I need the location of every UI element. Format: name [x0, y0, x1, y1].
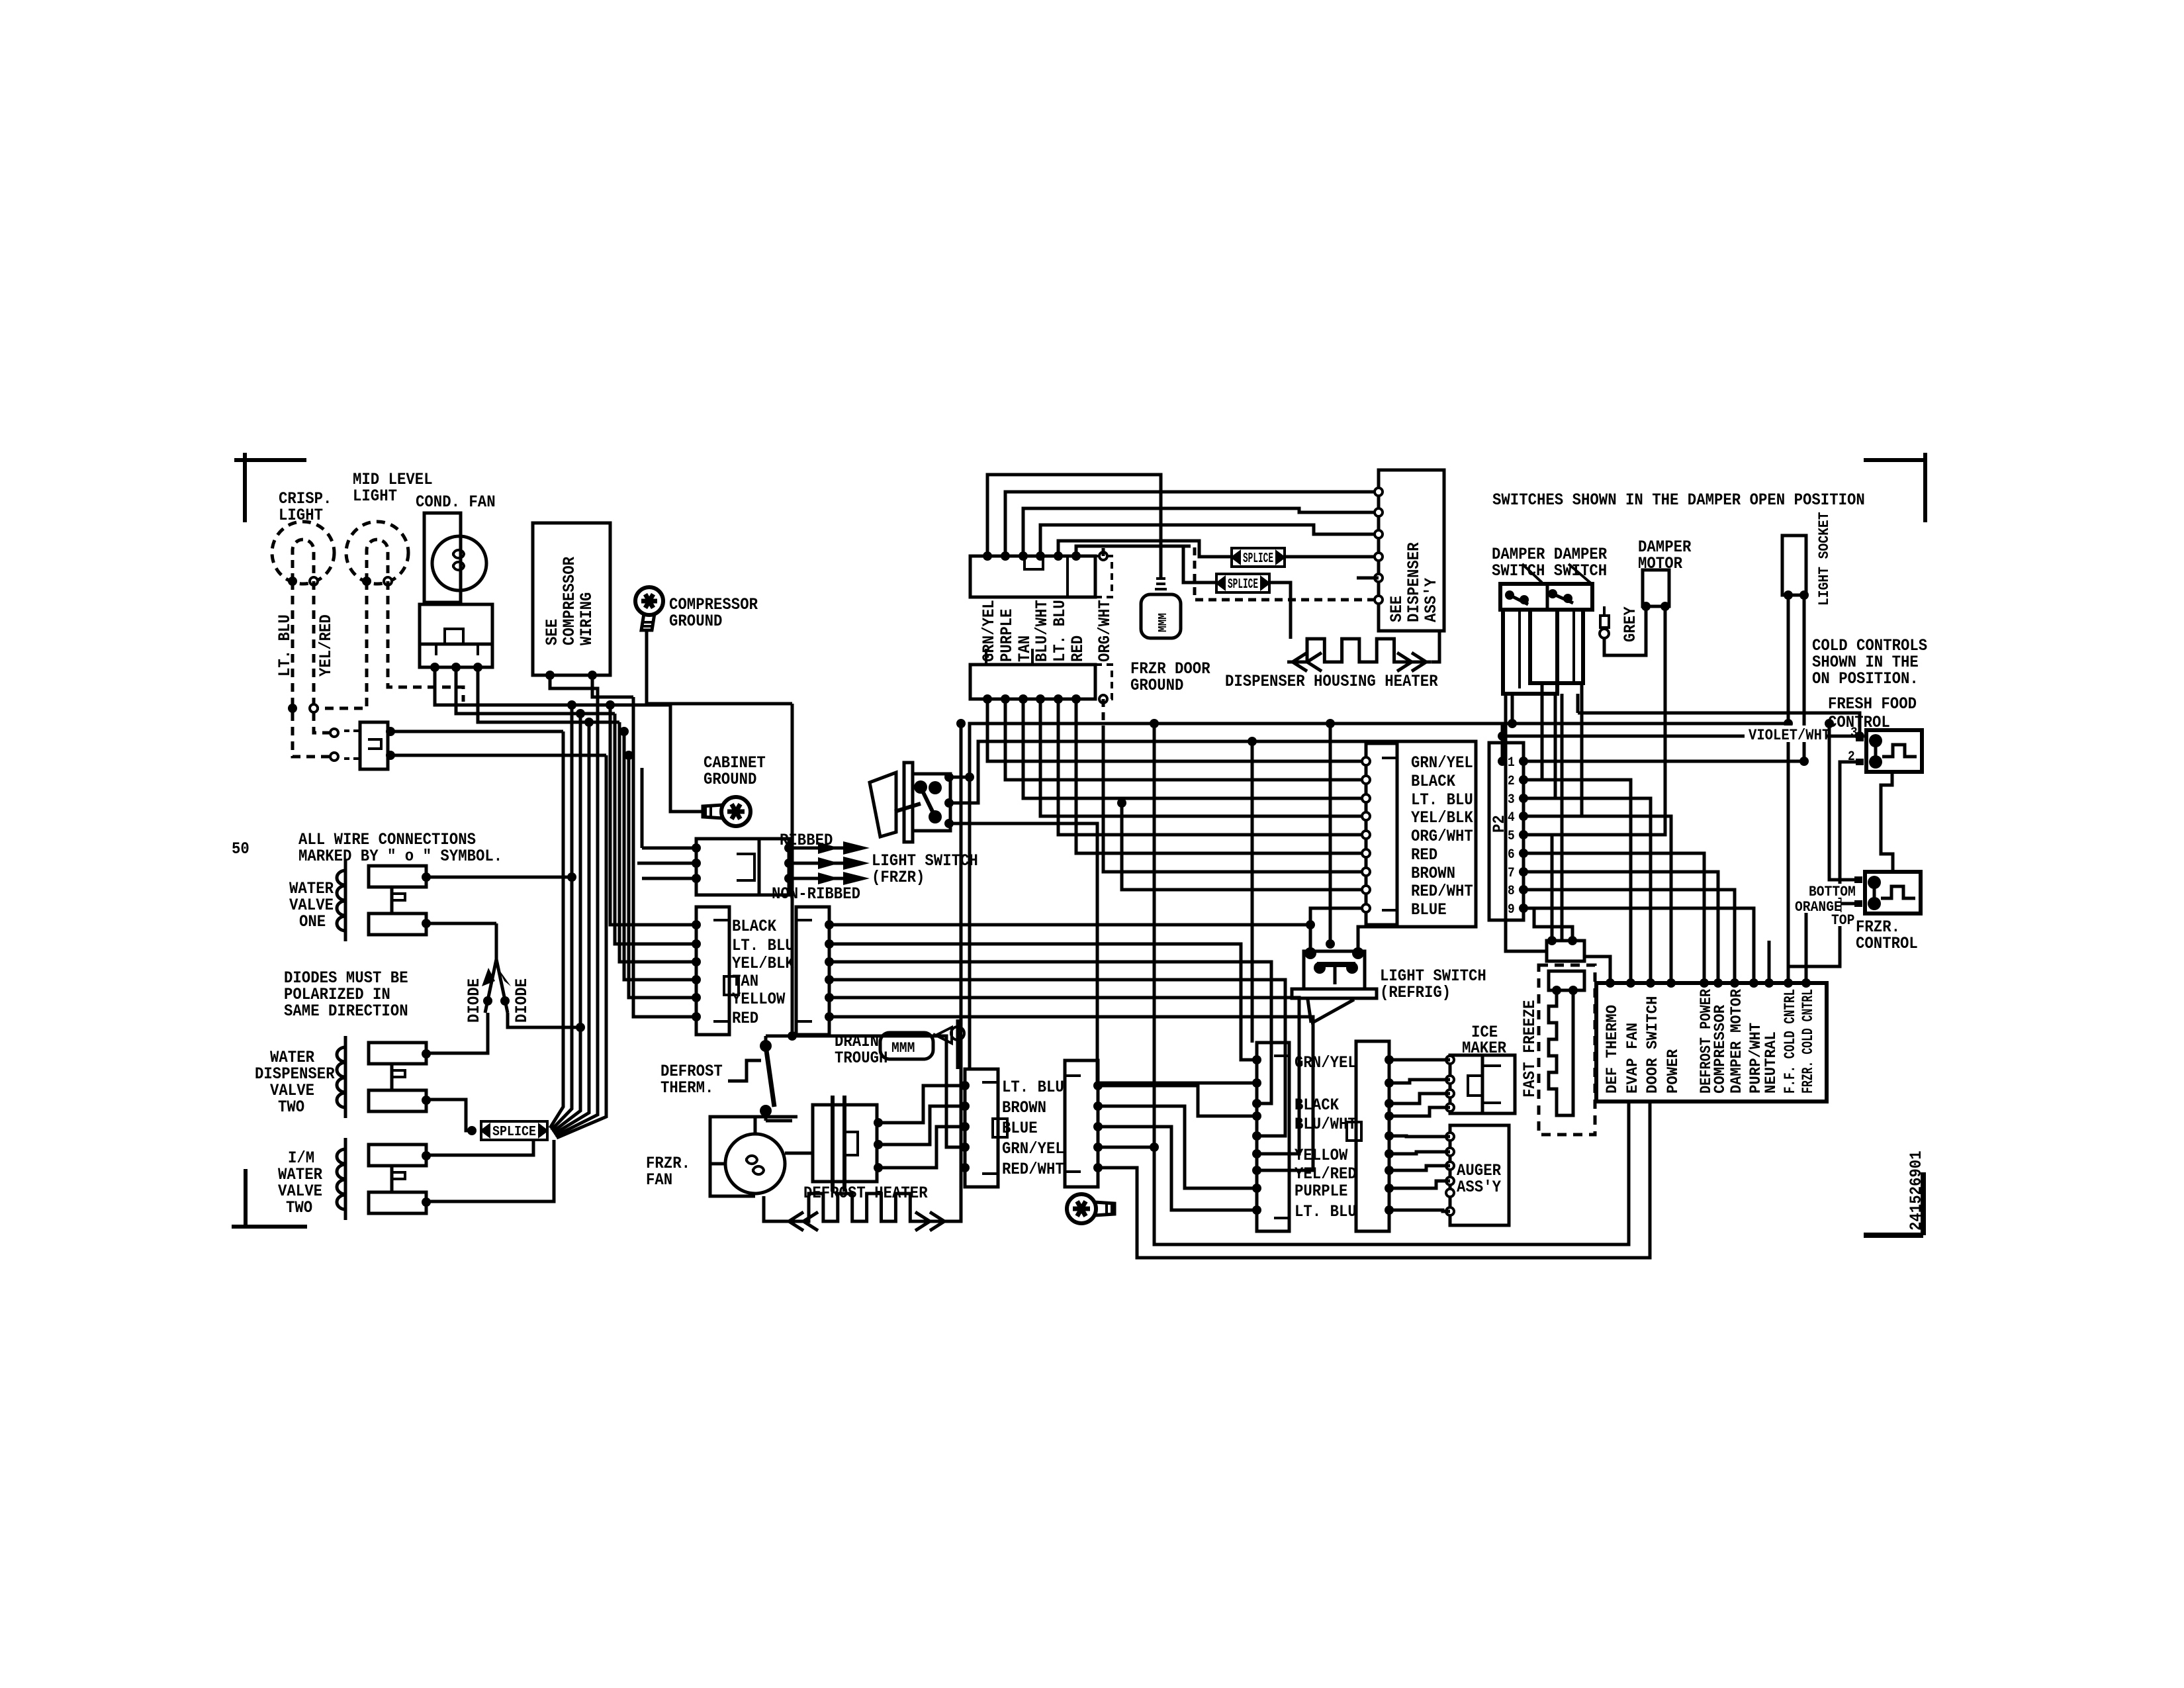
svg-text:LT. BLU: LT. BLU	[732, 936, 794, 955]
wire p2-2 grid	[1524, 780, 1631, 983]
svg-text:BOTTOM: BOTTOM	[1809, 884, 1856, 900]
wire damper sw 3	[1524, 694, 1555, 798]
damper switch assembly	[1500, 584, 1592, 610]
svg-text:9: 9	[1508, 902, 1515, 917]
svg-text:GREY: GREY	[1621, 606, 1640, 642]
svg-text:POWER: POWER	[1664, 1049, 1682, 1094]
wire heater to J2 r2	[878, 1106, 965, 1145]
svg-text:3: 3	[1508, 792, 1515, 808]
wire long vertical e	[1329, 724, 1332, 944]
connector P2	[1489, 743, 1524, 920]
svg-text:TAN: TAN	[732, 972, 758, 991]
wire p1-6 to splice2	[1076, 546, 1215, 583]
svg-text:THERM.: THERM.	[660, 1078, 713, 1098]
wire J2r row4	[1098, 1102, 1629, 1244]
svg-text:ASS'Y: ASS'Y	[1457, 1178, 1501, 1197]
connector grey	[1603, 606, 1606, 616]
wire valve1 bottom to diode	[426, 922, 496, 925]
bundle A v5	[555, 697, 598, 1136]
wire p2-5 to fastfreeze	[1524, 835, 1552, 941]
lamp mid level light	[346, 522, 408, 584]
wire fan to heater1	[785, 1152, 813, 1155]
bundle B v2	[615, 714, 696, 944]
thermostat defrost	[728, 1060, 761, 1081]
wire j4 im1	[1389, 1058, 1450, 1062]
bundle B v4	[624, 731, 696, 980]
svg-text:SPLICE: SPLICE	[1243, 551, 1273, 567]
svg-text:5: 5	[1508, 829, 1515, 844]
wire splice2 to heater	[1269, 583, 1291, 639]
svg-text:YEL/RED: YEL/RED	[1295, 1164, 1357, 1184]
wire J2r row3	[1098, 1127, 1257, 1210]
wire ff2 to strip	[1788, 762, 1856, 983]
wires ribbed arrows	[793, 847, 852, 850]
wire switch to bundle2	[390, 754, 606, 757]
svg-text:BLACK: BLACK	[1295, 1096, 1339, 1115]
wire refrig-sw right up	[1358, 927, 1476, 951]
wire damper sw left leg	[1506, 694, 1547, 951]
wire yel/red dashed	[314, 581, 333, 733]
wire long vertical b	[791, 704, 794, 1036]
diode pair	[495, 923, 498, 959]
lamp crisper light	[272, 522, 334, 584]
wire damper sw 1	[1511, 694, 1514, 724]
wire diode right out	[508, 1013, 580, 1027]
wire mesh r7 dashed	[1102, 699, 1105, 728]
svg-text:LT. BLU: LT. BLU	[1411, 790, 1473, 810]
frzr fan frame	[710, 1117, 797, 1196]
wire p1-4 to dispenser	[1040, 525, 1379, 556]
wire long vertical c	[1153, 724, 1156, 1147]
connector P1 top	[970, 556, 1095, 597]
bundle B v1	[610, 705, 696, 925]
wire J1r row2	[829, 944, 1257, 1060]
wire p1-3 to dispenser	[1023, 508, 1379, 556]
svg-text:YEL/BLK: YEL/BLK	[732, 954, 794, 973]
switch light refrig	[1304, 951, 1365, 989]
wire light-switch-frzr top	[949, 724, 1502, 777]
wire therm bottom	[766, 1119, 792, 1123]
drain trough heater	[880, 1033, 933, 1059]
corner mark top-right	[1864, 458, 1925, 462]
wire long vertical d	[1251, 741, 1254, 1043]
svg-text:FAST FREEZE: FAST FREEZE	[1520, 1000, 1539, 1098]
corner mark top-left	[234, 458, 306, 462]
connector J3	[1366, 743, 1397, 925]
wire heater to J2 r1	[878, 1086, 965, 1123]
connector J2 right	[1065, 1060, 1098, 1187]
wire long vertical a	[960, 724, 963, 1221]
wire ff3 feed	[1578, 713, 1860, 736]
box SEE COMPRESSOR WIRING	[533, 523, 610, 675]
wire p2-9b to fastfreeze	[1524, 908, 1572, 941]
svg-text:PURPLE: PURPLE	[997, 609, 1017, 662]
svg-text:DOOR SWITCH: DOOR SWITCH	[1644, 996, 1661, 1094]
wire frzr-ctl bottom	[1829, 724, 1854, 880]
svg-text:50: 50	[232, 839, 250, 859]
svg-text:DISPENSER: DISPENSER	[1404, 542, 1424, 622]
svg-text:GRN/YEL: GRN/YEL	[979, 600, 999, 662]
svg-text:1: 1	[1508, 755, 1515, 771]
wire frzr door ground feed	[987, 475, 1161, 577]
wire splice1 right	[1285, 555, 1379, 559]
wire refrig-sw mid	[1122, 803, 1366, 890]
svg-text:NEUTRAL: NEUTRAL	[1762, 1031, 1780, 1094]
auger assembly	[1450, 1125, 1509, 1225]
wire relay to def thermo	[1584, 957, 1610, 983]
wire p2-9 grid	[1524, 908, 1754, 983]
connector J1 right	[796, 907, 829, 1035]
svg-text:COND. FAN: COND. FAN	[416, 492, 496, 512]
svg-text:LT. BLU: LT. BLU	[1295, 1202, 1357, 1221]
svg-text:GROUND: GROUND	[1130, 676, 1183, 695]
svg-text:(REFRIG): (REFRIG)	[1380, 983, 1451, 1002]
wire j4 au5	[1389, 1210, 1450, 1211]
svg-text:ASS'Y: ASS'Y	[1422, 578, 1441, 622]
svg-text:TWO: TWO	[286, 1198, 312, 1217]
svg-text:FAN: FAN	[646, 1170, 672, 1190]
svg-text:DIODE: DIODE	[465, 978, 484, 1023]
svg-text:LIGHT: LIGHT	[279, 506, 323, 525]
wire mid-light right dashed	[388, 581, 463, 702]
svg-text:FRESH FOOD: FRESH FOOD	[1828, 694, 1917, 714]
svg-text:BLACK: BLACK	[1411, 772, 1455, 791]
motor frzr fan	[725, 1134, 785, 1194]
svg-text:SAME DIRECTION: SAME DIRECTION	[284, 1002, 408, 1021]
wire damper sw 4	[1524, 683, 1582, 816]
wire fan to heater2	[710, 1162, 725, 1166]
damper motor	[1643, 570, 1669, 606]
leader lines damper switch	[1522, 564, 1542, 583]
wire therm to J2	[792, 1036, 965, 1147]
wire p2-3 grid	[1524, 798, 1651, 983]
wire p2-4 grid	[1524, 816, 1671, 983]
wire damper sw 5	[1561, 694, 1564, 941]
splice lower	[1216, 574, 1269, 592]
splice left-bottom	[481, 1121, 547, 1140]
svg-text:SPLICE: SPLICE	[1228, 577, 1258, 592]
wire J1r row1	[829, 908, 1366, 925]
fast freeze resistor	[1549, 971, 1584, 990]
wire light socket left	[1787, 595, 1790, 983]
bundle B v6	[633, 697, 696, 1017]
wire j4 im3	[1389, 1094, 1450, 1103]
svg-text:SEE: SEE	[543, 619, 562, 645]
svg-text:LIGHT: LIGHT	[353, 487, 397, 506]
wire socket-h	[970, 722, 1788, 726]
fast freeze relay box	[1547, 941, 1584, 961]
wire j4 au3	[1389, 1166, 1450, 1170]
splice upper	[1232, 548, 1285, 567]
svg-text:EVAP FAN: EVAP FAN	[1624, 1023, 1641, 1094]
capacitor defrost heater body	[813, 1105, 877, 1182]
wires into door connector	[642, 847, 696, 850]
svg-text:4: 4	[1508, 810, 1515, 825]
wire heater right	[950, 1168, 961, 1221]
svg-text:WIRING: WIRING	[577, 592, 596, 645]
svg-text:RED: RED	[1411, 845, 1437, 865]
svg-text:BLUE: BLUE	[1411, 900, 1447, 919]
wire refrig-sw left up	[1309, 925, 1312, 951]
switch light frzr	[870, 773, 896, 837]
svg-text:BROWN: BROWN	[1411, 864, 1455, 883]
wire damper motor down	[1524, 606, 1665, 835]
wire cond fan t2	[456, 667, 615, 714]
svg-text:ORG/WHT: ORG/WHT	[1095, 600, 1115, 662]
wire light-switch-frzr bot	[949, 823, 1257, 1083]
connector J4 left	[1257, 1043, 1289, 1231]
svg-text:LT. BLU: LT. BLU	[275, 614, 295, 677]
wire im valve top	[426, 1140, 533, 1155]
svg-text:COMPRESSOR: COMPRESSOR	[560, 557, 579, 645]
wire j4 au1	[1389, 1136, 1450, 1137]
wire p2-8 grid	[1524, 890, 1735, 983]
svg-text:MMM: MMM	[1157, 613, 1170, 632]
wire j4 im2	[1389, 1080, 1450, 1083]
connector J4 right	[1356, 1041, 1389, 1231]
motor cond fan	[424, 513, 461, 602]
svg-text:SPLICE: SPLICE	[492, 1125, 536, 1140]
bundle A v1	[550, 731, 563, 1128]
svg-text:SWITCH SWITCH: SWITCH SWITCH	[1492, 561, 1607, 581]
svg-text:ONE: ONE	[299, 912, 326, 931]
svg-text:NON-RIBBED: NON-RIBBED	[772, 884, 860, 904]
heater defrost element	[784, 1194, 950, 1221]
connector P1 bottom	[970, 665, 1095, 699]
wire p2-1 right	[1524, 760, 1804, 763]
svg-text:DEF THERMO: DEF THERMO	[1604, 1005, 1621, 1094]
wire J1r row5	[829, 998, 1299, 1154]
wire compressor t1	[550, 675, 633, 697]
svg-text:BROWN: BROWN	[1002, 1098, 1046, 1117]
solenoid water valve one	[344, 859, 347, 941]
switch interior-light	[360, 722, 388, 769]
svg-text:GRN/YEL: GRN/YEL	[1411, 753, 1473, 773]
wire cond fan t1	[435, 667, 670, 705]
svg-text:BLUE: BLUE	[1002, 1119, 1038, 1138]
wire p1-5 to splice1	[1058, 541, 1230, 557]
svg-text:RED/WHT: RED/WHT	[1002, 1160, 1064, 1179]
wire compressor ground down	[647, 630, 792, 704]
wire violet/wht	[1502, 735, 1856, 738]
control fresh food	[1866, 730, 1922, 772]
label VIOLET/WHT	[1745, 726, 1825, 742]
svg-text:TOP: TOP	[1831, 912, 1854, 929]
wire im valve bottom	[426, 1140, 554, 1201]
svg-text:TWO: TWO	[278, 1098, 304, 1117]
svg-text:YEL/BLK: YEL/BLK	[1411, 808, 1473, 827]
wire J2r row5	[1098, 1102, 1650, 1258]
svg-text:FRZR. COLD CNTRL: FRZR. COLD CNTRL	[1799, 989, 1817, 1094]
wire J1r row3	[829, 962, 1271, 1103]
wire valve2 bottom to splice	[426, 1100, 472, 1131]
wire mesh r2	[1005, 699, 1366, 780]
svg-text:GROUND: GROUND	[669, 612, 722, 631]
svg-text:COMPRESSOR: COMPRESSOR	[1711, 1005, 1729, 1094]
bundle A v3	[553, 714, 580, 1132]
wire light socket right	[1803, 595, 1806, 761]
wire heater to J2 r3	[878, 1127, 965, 1168]
svg-text:PURPLE: PURPLE	[1295, 1182, 1347, 1201]
terminal strip box	[1596, 983, 1827, 1102]
wire j4 au4	[1389, 1181, 1450, 1188]
wire j4 au2	[1389, 1152, 1450, 1154]
wire J2r row1	[1098, 1086, 1257, 1116]
wire j4 im4	[1389, 1107, 1450, 1116]
svg-text:2: 2	[1508, 774, 1515, 789]
wire valve1 top	[426, 876, 572, 879]
ground frzr door	[1156, 577, 1165, 580]
svg-text:241526901: 241526901	[1907, 1150, 1926, 1231]
svg-text:DISPENSER HOUSING HEATER: DISPENSER HOUSING HEATER	[1225, 672, 1438, 691]
bundle B v3	[619, 722, 696, 962]
wire lt.blu dashed	[293, 581, 333, 757]
wire mesh r4	[1040, 699, 1366, 816]
wire p2-6 grid	[1524, 853, 1704, 983]
wire diode left down	[426, 1013, 488, 1053]
heater dispenser housing	[1287, 639, 1432, 662]
svg-text:6: 6	[1508, 847, 1515, 863]
svg-text:ORG/WHT: ORG/WHT	[1411, 827, 1473, 846]
svg-text:GRN/YEL: GRN/YEL	[1295, 1053, 1357, 1072]
wire light-switch-frzr mid	[949, 741, 1476, 927]
svg-text:YEL/RED: YEL/RED	[316, 614, 336, 677]
label BOTTOM ORANGE TOP	[1805, 884, 1854, 898]
svg-text:GRN/YEL: GRN/YEL	[1002, 1139, 1064, 1158]
wire J1r row6	[829, 1017, 1313, 1170]
wire cond fan t3	[478, 667, 619, 722]
svg-text:VIOLET/WHT: VIOLET/WHT	[1749, 727, 1830, 744]
svg-text:LIGHT SOCKET: LIGHT SOCKET	[1816, 512, 1833, 606]
svg-text:MARKED BY " o " SYMBOL.: MARKED BY " o " SYMBOL.	[298, 847, 502, 866]
connector J2 left	[965, 1069, 998, 1187]
wire mesh r6	[1076, 699, 1366, 853]
bundle A v6	[557, 755, 606, 1138]
wire org/wht dashed	[1102, 546, 1105, 556]
ground evaporator	[1067, 1194, 1115, 1223]
wire mesh r5	[1058, 699, 1366, 835]
svg-text:(FRZR): (FRZR)	[872, 868, 925, 887]
wire therm top	[766, 1035, 792, 1038]
wire J1r row4	[829, 980, 1285, 1136]
svg-text:YELLOW: YELLOW	[732, 990, 785, 1009]
ground compressor	[635, 587, 663, 630]
svg-text:SEE: SEE	[1387, 596, 1406, 622]
wire p1-2 to dispenser	[1005, 492, 1379, 556]
wire mid-light left dashed	[318, 581, 367, 708]
wire J2r row2	[1098, 1106, 1257, 1188]
wire trough to J2	[956, 1019, 960, 1069]
svg-text:RED: RED	[732, 1009, 758, 1028]
svg-text:LT. BLU: LT. BLU	[1050, 600, 1069, 662]
svg-text:GROUND: GROUND	[704, 770, 756, 789]
wire p2-7 grid	[1524, 872, 1718, 983]
wire compressor t2	[592, 675, 598, 697]
svg-text:8: 8	[1508, 884, 1515, 899]
wire mesh r1	[987, 699, 1366, 761]
corner mark bottom-right	[1921, 1172, 1926, 1235]
solenoid water dispenser valve two	[344, 1036, 347, 1118]
svg-text:F.F. COLD CNTRL: F.F. COLD CNTRL	[1782, 989, 1799, 1094]
wire heater left	[764, 1196, 784, 1221]
svg-text:MMM: MMM	[891, 1040, 915, 1056]
svg-text:7: 7	[1508, 866, 1515, 881]
bundle B v5	[629, 755, 696, 998]
svg-text:DIODE: DIODE	[512, 978, 531, 1023]
svg-text:YELLOW: YELLOW	[1295, 1146, 1347, 1165]
lamp socket	[1782, 536, 1806, 595]
bundle A v2	[551, 705, 572, 1130]
connector door harness	[696, 839, 759, 895]
svg-text:SWITCHES SHOWN IN THE DAMPER O: SWITCHES SHOWN IN THE DAMPER OPEN POSITI…	[1492, 491, 1865, 510]
connector cond fan	[420, 604, 492, 644]
solenoid i/m water valve two	[344, 1138, 347, 1220]
svg-text:LT. BLU: LT. BLU	[1002, 1078, 1064, 1097]
wire ff control link	[1881, 772, 1893, 872]
box SEE DISPENSER ASSY WIRING	[1379, 470, 1444, 631]
terminal strip terminals	[1606, 978, 1615, 988]
ground cabinet	[703, 797, 751, 826]
svg-text:ON POSITION.: ON POSITION.	[1812, 669, 1919, 688]
svg-text:BLU/WHT: BLU/WHT	[1032, 600, 1052, 662]
corner mark bottom-left	[244, 1169, 248, 1227]
svg-text:CONTROL: CONTROL	[1856, 934, 1918, 953]
wire damper sw 2	[1524, 683, 1542, 780]
wire switch to bundle1	[390, 730, 563, 733]
svg-text:RED: RED	[1068, 635, 1087, 662]
icemaker	[1450, 1055, 1515, 1113]
wire damper feed h	[1576, 694, 1580, 713]
damper inner wires	[1518, 610, 1521, 688]
svg-text:DAMPER MOTOR: DAMPER MOTOR	[1728, 989, 1745, 1094]
bundle A v4	[554, 722, 589, 1134]
control frzr	[1865, 872, 1921, 914]
wire frzr-ctl top	[1806, 904, 1854, 983]
svg-text:RED/WHT: RED/WHT	[1411, 882, 1473, 901]
svg-text:BLACK: BLACK	[732, 917, 776, 936]
fast freeze dashed box	[1539, 965, 1595, 1135]
wire mesh r3	[1023, 699, 1366, 798]
connector J1 left	[696, 907, 729, 1035]
